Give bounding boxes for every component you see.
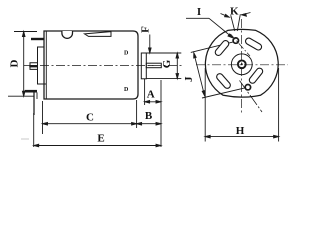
dimension B [137, 122, 161, 125]
dimension C [43, 100, 137, 134]
shaft circle end view [238, 60, 246, 68]
end view centerline vertical [241, 19, 243, 113]
svg-text:G: G [161, 59, 173, 68]
dimension J (rotated dimension to screw holes) [191, 42, 246, 98]
svg-text:D: D [124, 87, 129, 93]
label K with arrows [221, 13, 251, 32]
shaft center dash [148, 64, 154, 66]
vent slot lower-right [253, 71, 260, 80]
vent slot upper-right [249, 41, 259, 47]
svg-text:D: D [124, 51, 129, 57]
end view outer can with flats [205, 29, 278, 97]
svg-text:H: H [236, 125, 245, 137]
vent slot lower-left [220, 77, 227, 85]
svg-text:I: I [197, 6, 201, 18]
top notch semicircle [62, 31, 73, 38]
terminal tab bottom [25, 90, 37, 93]
vent slot upper-left [218, 44, 225, 53]
small D mark upper [124, 51, 129, 57]
bearing boss right [141, 53, 146, 79]
svg-text:E: E [97, 133, 104, 145]
shaft [146, 63, 161, 67]
svg-text:F: F [140, 26, 152, 33]
dimension A [145, 79, 161, 105]
bottom bracket / strap [33, 92, 35, 115]
screw hole axis dashes [231, 34, 251, 56]
svg-text:J: J [183, 76, 195, 82]
motor body can (side view) [44, 31, 138, 99]
centerline side view [24, 64, 184, 66]
rear bearing nub [30, 63, 38, 70]
screw hole bottom [245, 85, 250, 90]
svg-text:D: D [9, 59, 21, 67]
svg-text:K: K [230, 6, 239, 18]
brush housing profile left [38, 47, 47, 84]
dimension H [205, 68, 278, 142]
terminal tab top [31, 38, 44, 40]
small D mark lower [124, 87, 129, 93]
end view centerline horizontal [196, 64, 288, 66]
dimension F leader [149, 35, 152, 54]
svg-text:A: A [147, 89, 155, 101]
screw hole top [233, 38, 238, 43]
svg-text:B: B [145, 110, 153, 122]
label I leader [186, 18, 233, 38]
hub circle [231, 54, 252, 75]
dimension G [147, 53, 182, 79]
dimension E [34, 80, 161, 147]
svg-text:C: C [86, 112, 94, 124]
endcap inner line [45, 31, 47, 99]
faint stray dash [21, 138, 29, 140]
dimension D [8, 32, 37, 97]
top vent slot parallelogram [85, 32, 112, 37]
